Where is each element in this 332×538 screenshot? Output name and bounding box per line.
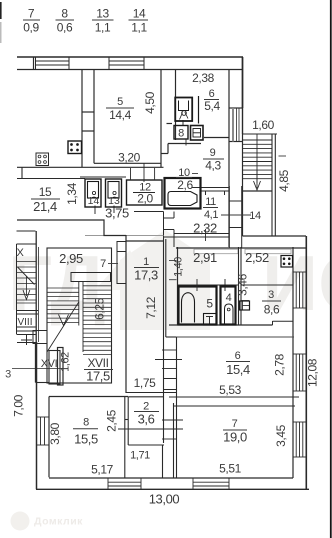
svg-text:5,17: 5,17: [91, 463, 113, 477]
corridor right wall double: [164, 239, 177, 443]
scan edge right border: [330, 0, 332, 538]
room 9 label 4,3: [203, 147, 224, 173]
gray lobby line: [85, 235, 164, 237]
bathroom label 10 / 2,6: [176, 167, 198, 192]
stair XVII right treads: [83, 286, 112, 355]
svg-text:3,20: 3,20: [118, 151, 140, 165]
stair X treads: [17, 262, 36, 304]
room 1 label 17,3: [134, 256, 159, 283]
kitchen/landing upper-left wall: [17, 220, 127, 236]
corridor 11 walls: [174, 186, 242, 248]
window right wall room 6: [293, 354, 306, 391]
shower/stall room 5 middle: [179, 287, 217, 326]
svg-text:4,50: 4,50: [143, 91, 157, 113]
window right wall room 3: [293, 272, 306, 308]
room 3 label 8,6: [262, 289, 281, 317]
door ticks corridor to room 7: [162, 420, 183, 439]
wall between 2,52/3 and 2,91/4: [239, 247, 242, 325]
leader 4,1 to 14: [221, 214, 251, 216]
svg-text:5: 5: [206, 297, 213, 311]
svg-text:14: 14: [249, 210, 261, 222]
left outer wall bottom section: [28, 342, 49, 489]
rooms 6/7 divider wall: [169, 397, 299, 406]
svg-text:7: 7: [232, 418, 238, 430]
kitchen bottom double wall: [17, 167, 164, 178]
svg-text:4,85: 4,85: [277, 169, 291, 191]
WC cubicle 14: [85, 179, 101, 214]
svg-text:Домклик: Домклик: [34, 516, 83, 528]
svg-text:5,53: 5,53: [219, 383, 241, 397]
svg-text:1,75: 1,75: [134, 376, 156, 390]
left edge scan marks: [0, 2, 2, 19]
bottom-left watermark domklik: [11, 512, 30, 531]
svg-text:1,62: 1,62: [60, 352, 72, 372]
svg-text:6,25: 6,25: [93, 297, 107, 319]
apartment number fraction 8/0,6: [56, 7, 75, 35]
stove room 2,52: [281, 256, 293, 268]
svg-text:3,80: 3,80: [48, 422, 62, 444]
svg-text:7: 7: [28, 7, 35, 21]
toilet room 6 upper: [175, 96, 198, 126]
stairwell walls: [243, 134, 307, 236]
niche box left: [194, 249, 238, 254]
svg-text:2,32: 2,32: [193, 221, 217, 236]
WC room 4 middle: [221, 279, 236, 325]
svg-text:14: 14: [88, 195, 100, 207]
wall between kitchen 15 and room 5: [82, 70, 94, 167]
room 6 top wall: [176, 336, 294, 338]
svg-text:14: 14: [133, 7, 146, 21]
svg-text:0,9: 0,9: [23, 21, 39, 35]
svg-text:X: X: [17, 247, 25, 259]
bottom wall inner: [49, 477, 293, 479]
svg-text:3,46: 3,46: [236, 273, 250, 295]
room 5 label 14,4: [106, 96, 134, 122]
WC cubicle 13: [106, 179, 122, 213]
svg-text:2,95: 2,95: [59, 251, 83, 266]
stair XVII center stringers: [79, 282, 83, 353]
wall below small rooms row: [169, 324, 273, 326]
wall above rooms 2,91 2,52: [176, 247, 306, 249]
main stairwell landing line: [243, 190, 273, 192]
bathtub: [168, 192, 197, 206]
svg-text:21,4: 21,4: [33, 199, 57, 214]
svg-text:15,4: 15,4: [226, 362, 250, 377]
niche box right: [245, 249, 291, 254]
stair label XVII / 17,5: [84, 356, 113, 384]
main stairwell treads (right): [243, 140, 273, 179]
svg-text:3,75: 3,75: [105, 206, 129, 221]
sink room 3: [240, 301, 250, 310]
svg-text:5: 5: [117, 96, 123, 108]
room 6 label 15,4: [226, 350, 250, 377]
site watermark large faint text: [8, 230, 332, 330]
left wall of rooms 2,91/5: [177, 247, 179, 325]
svg-text:15,5: 15,5: [74, 432, 98, 447]
apartment number fraction 7/0,9: [23, 7, 40, 35]
svg-text:11: 11: [205, 196, 216, 208]
svg-text:4,3: 4,3: [205, 159, 221, 173]
svg-text:17,3: 17,3: [134, 268, 158, 283]
elevator shaft XVI walls: [12, 342, 63, 385]
corridor room 1 top wall: [126, 240, 164, 242]
apartment number fraction 13/1,1: [92, 7, 114, 35]
svg-text:1,1: 1,1: [95, 21, 111, 35]
room 8 right wall: [125, 397, 128, 479]
bathroom 10 walls: [165, 178, 201, 209]
svg-text:8: 8: [83, 417, 89, 429]
svg-text:4: 4: [226, 292, 232, 304]
svg-text:1,34: 1,34: [65, 182, 79, 204]
svg-text:19,0: 19,0: [223, 430, 247, 445]
door verticals corridor 7: [117, 241, 126, 284]
svg-text:15: 15: [39, 185, 52, 199]
svg-text:2,6: 2,6: [177, 178, 193, 192]
svg-text:2,91: 2,91: [193, 250, 217, 265]
window in top wall (right): [109, 57, 144, 70]
stair XVII left treads: [47, 288, 79, 322]
svg-text:2,0: 2,0: [137, 192, 153, 206]
door junction corridor to room 1: [134, 212, 174, 248]
box label 12/2,0: [127, 163, 163, 206]
right outer wall top section: [242, 57, 244, 108]
svg-text:2,45: 2,45: [105, 409, 119, 431]
svg-text:8,6: 8,6: [264, 303, 280, 317]
sink box next to 8: [191, 126, 204, 141]
svg-text:3: 3: [5, 369, 11, 381]
stair XVII outer box: [47, 248, 112, 383]
landing box between stairs: [33, 331, 47, 344]
dim 1,40 rotated: [169, 257, 185, 280]
svg-text:2,52: 2,52: [245, 250, 269, 265]
svg-text:4,1: 4,1: [204, 209, 218, 221]
window bottom wall left: [108, 478, 141, 489]
room 5 bottom wall: [94, 162, 161, 164]
svg-text:1,1: 1,1: [131, 21, 147, 35]
door crossbars corridor bottom: [164, 379, 177, 390]
svg-text:1: 1: [143, 256, 149, 268]
svg-text:17,5: 17,5: [86, 369, 110, 384]
room 5 right wall: [160, 70, 162, 167]
svg-text:XVI: XVI: [41, 358, 58, 370]
svg-text:5,51: 5,51: [219, 462, 241, 476]
bottom wall outer: [36, 488, 309, 490]
svg-text:2,78: 2,78: [273, 353, 287, 375]
hatched wall column with vent: [229, 57, 243, 142]
room 8 top wall: [49, 396, 128, 398]
room 7 label 19,0: [223, 418, 247, 445]
svg-text:8: 8: [61, 7, 68, 21]
room 8 label 15,5: [73, 417, 98, 447]
svg-text:9: 9: [210, 147, 216, 159]
wall between room1 corridor and room 2: [126, 393, 176, 397]
corridor room 1 left wall: [125, 235, 127, 393]
svg-text:3,45: 3,45: [274, 424, 288, 446]
svg-text:3: 3: [268, 289, 274, 301]
window right wall room 7: [293, 422, 306, 457]
stair X lower landing lines: [17, 311, 39, 335]
svg-text:6: 6: [235, 350, 241, 362]
window in top wall (left): [36, 57, 70, 70]
svg-text:3,6: 3,6: [138, 412, 155, 427]
stair X diagonal: [18, 267, 35, 285]
svg-text:7,12: 7,12: [144, 296, 158, 318]
svg-text:14,4: 14,4: [109, 108, 131, 122]
svg-text:VIII: VIII: [17, 317, 32, 328]
window bottom wall right: [193, 478, 229, 489]
stair X box left: [17, 231, 39, 342]
svg-text:1,71: 1,71: [130, 450, 150, 462]
wall below rooms 2,91 and 2,52: [177, 284, 293, 286]
svg-text:7: 7: [100, 258, 106, 270]
stair X down arrow: [23, 276, 30, 300]
apartment number fraction 14/1,1: [129, 7, 149, 35]
wall right of corridor bottom: [174, 337, 177, 478]
main stairwell center line and down arrow: [254, 134, 261, 190]
window left wall room 8: [37, 417, 50, 445]
svg-text:8: 8: [178, 128, 184, 140]
svg-text:5,4: 5,4: [204, 99, 220, 113]
svg-text:1,60: 1,60: [252, 118, 274, 132]
svg-text:12,08: 12,08: [306, 358, 320, 387]
room 2 label 3,6: [134, 401, 159, 427]
right outer wall: [305, 236, 307, 489]
room 6 (5,4) walls: [161, 70, 229, 247]
post below stair X: [17, 335, 36, 346]
label 8 box: [174, 126, 188, 146]
tick above room 5: [196, 279, 198, 291]
stove dark (kitchen, upper): [68, 141, 82, 154]
corridor label 11/4,1: [203, 196, 218, 221]
stove outline (kitchen, lower-left): [36, 153, 49, 166]
svg-text:13: 13: [96, 7, 109, 21]
svg-text:1,40: 1,40: [173, 257, 185, 277]
tick on corridor 11 bottom wall: [205, 229, 207, 241]
svg-text:2,38: 2,38: [192, 71, 214, 85]
svg-text:0,6: 0,6: [57, 21, 73, 35]
svg-text:13,00: 13,00: [149, 492, 180, 507]
room 2 bottom wall: [128, 445, 164, 478]
right inner wall: [292, 247, 294, 478]
stair XVII diagonal and arrow: [47, 302, 79, 352]
svg-text:7,00: 7,00: [12, 394, 26, 416]
kitchen label 15/21,4: [31, 185, 60, 214]
door ticks corridor to room6 area: [155, 350, 182, 369]
top outer wall: [17, 57, 243, 70]
stair XVII landing rect: [71, 273, 111, 282]
